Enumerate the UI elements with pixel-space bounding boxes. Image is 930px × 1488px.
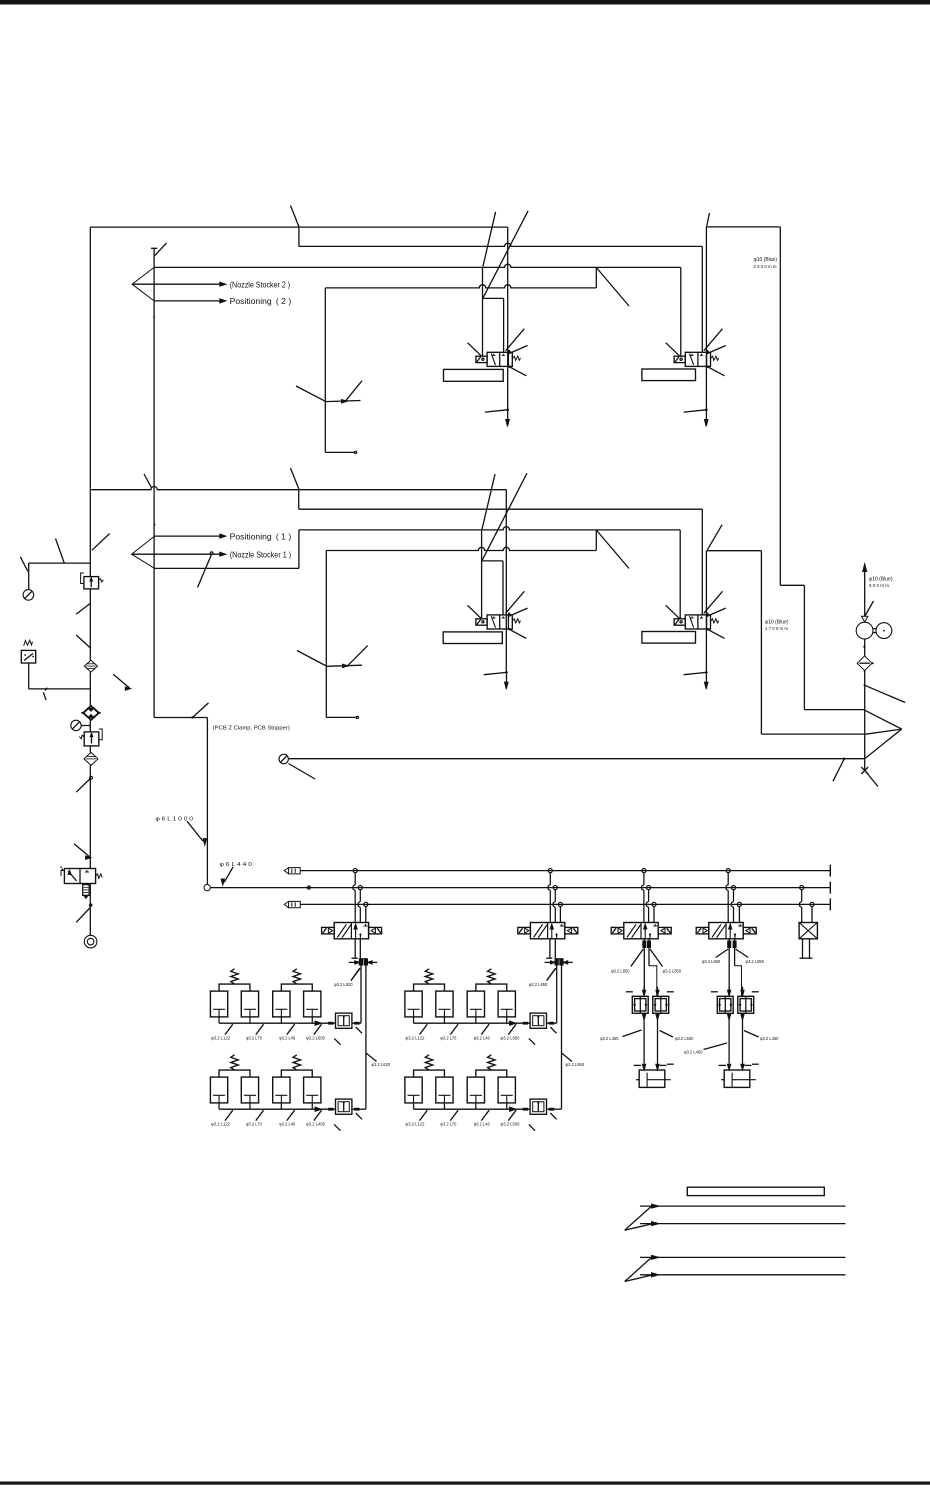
cylinder c2u-p2-1	[467, 991, 484, 1017]
corner circle at manifold	[204, 884, 210, 890]
stem c2u-p2-1	[475, 1017, 477, 1023]
legend chevron 1	[625, 1207, 651, 1231]
valve section1-B name plate	[642, 369, 696, 381]
label leader c1l-1	[225, 1110, 233, 1120]
valve flow path	[491, 616, 495, 628]
st4 side ticks	[711, 991, 718, 993]
stem c1u-p2-2	[311, 1017, 313, 1023]
svg-text:φ3.2 L460: φ3.2 L460	[600, 1036, 619, 1041]
bracket c2u-p1	[414, 984, 445, 991]
intake triangle	[862, 616, 868, 622]
actuator down arrow s2 valve2	[705, 672, 707, 681]
svg-text:φ3.2 L950: φ3.2 L950	[529, 982, 548, 987]
label leader c1l-3	[287, 1110, 295, 1120]
flow arrow c1l	[315, 1107, 321, 1111]
flow control st4-B	[738, 996, 754, 1013]
leader from node	[833, 759, 844, 782]
stem c1l-p1-1	[218, 1103, 220, 1109]
bracket c2l-p2	[476, 1070, 507, 1077]
leader to (482,298)	[483, 211, 528, 298]
wire: riser x=596.3	[595, 267, 597, 288]
svg-text:φ3.2 L70: φ3.2 L70	[246, 1122, 262, 1127]
wire: pilot jog corner to x=503.6	[483, 297, 504, 299]
leader lines at valve section2-B	[666, 605, 680, 619]
leader lines at valve section2-A	[468, 605, 482, 619]
rail 1 end bar	[829, 865, 831, 877]
leader from corner 596 (s2)	[596, 530, 629, 569]
st4 arrows out of controls	[728, 1014, 731, 1020]
leader to (481,530)	[482, 474, 495, 529]
collector line c1l	[219, 1108, 335, 1110]
wire: valve2 pilot drop x=680.2	[679, 530, 681, 619]
label arrow Positioning (2)	[154, 300, 221, 302]
flow arrow c1u	[315, 1021, 321, 1025]
stem c2l-p2-2	[506, 1103, 508, 1109]
st1 drop line to lower cluster	[365, 965, 367, 1109]
st2 feed from rail3	[559, 907, 561, 923]
spring return c2u-p1	[425, 969, 433, 984]
wire: main right riser	[864, 671, 866, 771]
svg-text:Positioning ( 2 ): Positioning ( 2 )	[230, 297, 292, 306]
legend line pair 1	[640, 1205, 846, 1207]
label arrow Positioning (1)	[155, 535, 221, 537]
st1 feed from rail3	[365, 907, 367, 923]
st2 drop line to lower cluster	[561, 965, 563, 1109]
drain circle w/ slash	[279, 754, 288, 763]
wire: section2 valve2 supply y=509.2	[299, 508, 703, 510]
blanking plate with X	[799, 923, 817, 939]
st3 cylinder	[639, 1070, 665, 1087]
chevron branch marker section2	[132, 536, 155, 568]
leader to left riser	[92, 534, 110, 551]
st1 junction label leader	[351, 968, 360, 981]
st5 plugged outlets	[802, 939, 804, 958]
st3 feed from rail2	[646, 890, 648, 923]
closed end X	[861, 767, 868, 774]
leader at tube corner	[707, 213, 710, 227]
wire: left leg x=326.3 down	[325, 551, 327, 718]
cylinder c2l-p1-2	[436, 1077, 453, 1103]
wire: lower link y=568.4	[155, 567, 299, 569]
label leader c2u-3	[481, 1024, 489, 1034]
straight flow paths	[644, 925, 646, 939]
wire: valve to muffler	[89, 884, 91, 936]
stem c1u-p1-2	[249, 1017, 251, 1023]
cylinder c1u-p1-2	[241, 991, 258, 1017]
st1 junction side ticks	[349, 961, 360, 963]
leader to junction (299,227)	[291, 206, 299, 227]
pressure gauge 1	[23, 590, 34, 601]
bracket c2l-p1	[414, 1070, 445, 1077]
wire: gauge branch y=563.1	[29, 562, 91, 564]
svg-text:φ3.2 L850: φ3.2 L850	[611, 969, 630, 974]
straight flow paths	[729, 925, 731, 939]
st1 feed from rail2	[358, 890, 360, 923]
svg-text:φ10 (Blue): φ10 (Blue)	[754, 257, 778, 263]
silencer (double circle)	[84, 935, 97, 948]
wire: left riser continues x=90	[89, 489, 91, 563]
svg-text:φ3.2 L460: φ3.2 L460	[760, 1036, 779, 1041]
st3 side ticks	[626, 991, 633, 993]
st4 lines through controls	[728, 987, 730, 997]
collector chevron right	[865, 710, 902, 729]
svg-text:1 7 0 0 m m: 1 7 0 0 m m	[765, 626, 788, 631]
leader from corner 596	[596, 268, 629, 307]
left pilot st2	[518, 927, 531, 934]
4/2 manifold valve st2 body	[530, 923, 564, 939]
right pilot st4	[743, 927, 756, 934]
leader at leg y=666	[347, 646, 368, 667]
svg-text:(Nozzle Stocker 1 ): (Nozzle Stocker 1 )	[230, 550, 292, 559]
st3 tap circles	[642, 869, 646, 873]
label leader c2u-1	[420, 1024, 428, 1034]
wire: section2 main supply line y=489.6	[90, 487, 506, 490]
rail plug 3	[284, 901, 300, 907]
label arrow (Nozzle Stocker 2)	[132, 283, 221, 285]
leader lines at valve section1-B	[666, 343, 680, 357]
link to main c2u	[547, 1022, 557, 1024]
svg-text:φ3.2 L70: φ3.2 L70	[246, 1036, 262, 1041]
svg-text:φ3.2 L400: φ3.2 L400	[684, 1049, 703, 1054]
svg-text:φ3.2 L620: φ3.2 L620	[372, 1062, 391, 1067]
wire: tube route y=226.9 top	[706, 226, 780, 228]
label leader c2l-4	[508, 1110, 516, 1120]
svg-text:φ3.2 L950: φ3.2 L950	[745, 959, 764, 964]
cylinder c2u-p2-2	[498, 991, 515, 1017]
st4 feed from rail1	[726, 873, 728, 923]
spring return c1l-p2	[293, 1055, 301, 1070]
st1 outlet A with end plug	[354, 939, 356, 958]
svg-text:φ3.2 L850: φ3.2 L850	[663, 969, 682, 974]
st1 drop line to upper cluster	[360, 965, 362, 1023]
svg-text:φ3.2 L122: φ3.2 L122	[406, 1122, 425, 1127]
svg-text:φ10 (Blue): φ10 (Blue)	[869, 576, 893, 582]
return spring section1-A	[512, 356, 520, 360]
flow arrow c2u	[510, 1021, 516, 1025]
link marks	[873, 628, 876, 630]
svg-text:(PCB Z Clamp, PCB Stopper): (PCB Z Clamp, PCB Stopper)	[213, 726, 290, 732]
actuator down arrow valve1	[507, 410, 509, 419]
cylinder c2u-p1-2	[436, 991, 453, 1017]
st4 leader diagonals	[716, 949, 729, 958]
wire: valve2 through line x=706.4	[705, 227, 707, 410]
solenoid pilot section1-B	[674, 356, 685, 362]
wire: tube jog y=585.3	[780, 584, 804, 586]
leaders below fb c2u	[529, 1038, 535, 1044]
right pilot st2	[565, 927, 578, 934]
wire: left leg x=325.3 down	[324, 288, 326, 453]
stem c2l-p1-2	[443, 1103, 445, 1109]
st4 cylinder	[724, 1070, 750, 1087]
cylinder c1l-p1-2	[241, 1077, 258, 1103]
label leader c1u-2	[256, 1024, 264, 1034]
manifold rail 2 (supply)	[210, 887, 830, 889]
spring return c2u-p2	[488, 969, 496, 984]
label leader c1l-2	[256, 1110, 264, 1120]
left pilot st1	[322, 927, 335, 934]
chevron branch marker section1	[132, 267, 154, 301]
cylinder c2l-p1-1	[405, 1077, 422, 1103]
crossed flow paths	[337, 924, 346, 937]
svg-text:φ3.2 L500: φ3.2 L500	[675, 1036, 694, 1041]
collector line c2u	[414, 1022, 531, 1024]
wire: switch to junction	[28, 663, 30, 689]
leader to tick	[76, 779, 90, 793]
svg-text:Positioning ( 1 ): Positioning ( 1 )	[230, 532, 292, 541]
filter 3	[89, 746, 91, 753]
svg-text:φ3.2 L70: φ3.2 L70	[440, 1122, 456, 1127]
spring return c1u-p1	[231, 969, 239, 984]
wire: valve1 pilot T drop x=482.5	[482, 267, 484, 356]
crossed flow paths	[534, 924, 543, 937]
st1 junction blocks	[359, 959, 362, 965]
leaders below fb c2l	[529, 1124, 535, 1130]
pressure switch	[24, 640, 33, 646]
speed controller c1u	[336, 1013, 352, 1028]
top title bar	[0, 0, 930, 5]
flow arrow c2l	[510, 1107, 516, 1111]
4/2 manifold valve st3 body	[624, 923, 658, 939]
label leader c1u-3	[287, 1024, 295, 1034]
manual 3/2 valve body	[64, 869, 95, 884]
wire: riser x=596.3 (s2)	[595, 530, 597, 551]
leader at drain circle	[289, 764, 316, 780]
svg-text:2 5 0 0 m m: 2 5 0 0 m m	[754, 264, 777, 269]
leader to (481,561)	[482, 473, 527, 560]
spring return c1u-p2	[293, 969, 301, 984]
wire: s2 tube drop x=761.4	[760, 551, 762, 734]
st3 outlet lines with flow arrows	[643, 939, 645, 997]
label arrow (Nozzle Stocker 1)	[132, 553, 221, 555]
wire: section1 main supply line y=227	[90, 226, 507, 228]
svg-text:(Nozzle Stocker 2 ): (Nozzle Stocker 2 )	[230, 280, 291, 289]
leaders below fb c1l	[334, 1124, 340, 1130]
legend chevron 2	[625, 1258, 651, 1282]
wire: pilot distribution line y=529.9	[299, 527, 680, 530]
valve section2-B name plate	[642, 632, 696, 644]
left pilot st4	[696, 927, 709, 934]
label leader c2l-2	[450, 1110, 458, 1120]
wire: section1 valve2 supply line y=246	[299, 243, 702, 246]
compressor circle	[856, 622, 873, 639]
wire: return line y=758.7	[288, 758, 864, 760]
link to main c2l	[547, 1108, 562, 1110]
svg-text:φ10 (Blue): φ10 (Blue)	[765, 619, 789, 625]
svg-text:φ3.2 L650: φ3.2 L650	[306, 1036, 325, 1041]
bracket c2u-p2	[476, 984, 507, 991]
rail 2 end bar	[829, 882, 831, 894]
stem c2u-p1-1	[413, 1017, 415, 1023]
gauge circle right	[876, 623, 892, 639]
svg-text:φ3.2 L122: φ3.2 L122	[211, 1122, 230, 1127]
wire: cross line y=550.5	[326, 547, 596, 550]
cylinder c2u-p1-1	[405, 991, 422, 1017]
leader	[351, 969, 360, 981]
st2 outlet B	[554, 939, 556, 959]
leader to intake	[865, 601, 874, 616]
manifold rail 3	[300, 903, 830, 905]
st2 feed from rail1	[548, 873, 550, 923]
solenoid valve section1-A body	[487, 352, 512, 366]
leaders below fb c1u	[334, 1038, 340, 1044]
leader lines at valve section1-A	[468, 343, 482, 357]
long leader to leg (s2)	[297, 651, 326, 667]
spring return c2l-p2	[488, 1055, 496, 1070]
return spring section1-B	[711, 356, 719, 360]
solenoid pilot section2-B	[674, 619, 685, 625]
flow marks	[68, 871, 77, 881]
svg-text:φ 6 L 1 0 0 0: φ 6 L 1 0 0 0	[156, 816, 194, 822]
stem c1l-p2-1	[280, 1103, 282, 1109]
svg-text:φ3.2 L950: φ3.2 L950	[566, 1062, 585, 1067]
cylinder c2l-p2-2	[498, 1077, 515, 1103]
straight flow paths	[355, 925, 357, 939]
stub with dot at y=452	[325, 451, 354, 453]
cylinder c1u-p2-1	[273, 991, 290, 1017]
leader from X	[866, 772, 878, 787]
wire: valve2 pilot drop x=680.8	[680, 267, 682, 356]
actuator stub left	[61, 866, 64, 876]
actuator down arrow s2 valve1	[506, 672, 508, 681]
solenoid valve section2-A body	[487, 615, 512, 629]
stem c1u-p1-1	[218, 1017, 220, 1023]
wire: valve1 pilot T drop x=481.6	[481, 530, 483, 619]
st2 feed from rail2	[553, 890, 555, 923]
st3 feed from rail3	[653, 907, 655, 923]
flow control st3-A	[632, 996, 648, 1013]
rail 3 end bar	[829, 898, 831, 910]
collector line c2l	[414, 1108, 531, 1110]
leader from junction	[865, 685, 906, 702]
wire: down to valve	[89, 765, 91, 868]
valve section1-A name plate	[444, 369, 504, 381]
cylinder c1l-p2-2	[304, 1077, 321, 1103]
svg-text:φ 6 L 4 4 0: φ 6 L 4 4 0	[220, 862, 253, 868]
st3 jog right	[649, 966, 657, 997]
stub with dot y=717	[326, 716, 356, 718]
return spring section2-B	[711, 619, 719, 623]
wire: source drop	[864, 639, 866, 656]
valve flow path	[690, 354, 694, 366]
st4 tap circles	[726, 869, 730, 873]
leader phi6L1000	[187, 821, 203, 841]
air source up arrow	[864, 568, 866, 617]
label leader c1u-1	[225, 1024, 233, 1034]
wire: branch drop x=298.7	[298, 490, 300, 510]
leader at gauge stem	[20, 557, 28, 572]
speed controller c2u	[530, 1013, 546, 1028]
st1 tap circles	[353, 869, 357, 873]
leader pair mid chain	[76, 603, 91, 614]
label leader c1l-4	[314, 1110, 322, 1120]
st5 feeds	[800, 890, 802, 923]
svg-text:φ3.2 L46: φ3.2 L46	[474, 1036, 490, 1041]
svg-text:φ3.2 L70: φ3.2 L70	[440, 1036, 456, 1041]
st3 leader diagonals	[631, 949, 644, 967]
wire: s2 valve2 through line x=706.4	[705, 551, 707, 673]
st2 drop line to upper cluster	[556, 965, 558, 1023]
st2 junction side ticks	[545, 961, 556, 963]
filter 1	[84, 660, 97, 672]
stem c2l-p2-1	[475, 1103, 477, 1109]
leader to hop at x=154	[144, 474, 152, 488]
4/2 manifold valve st1 body	[334, 923, 368, 939]
actuator junction tick s2 valve1	[505, 671, 508, 674]
wire: manifold feed drop x=207.4	[206, 718, 208, 885]
return spring section2-A	[512, 619, 520, 623]
actuator junction tick s2 valve2	[705, 671, 708, 674]
small circle tick y=777	[90, 776, 93, 779]
4/2 manifold valve st4 body	[709, 923, 743, 939]
svg-text:φ3.2 L46: φ3.2 L46	[474, 1122, 490, 1127]
leader at s2 tube start	[707, 525, 722, 550]
leader at branch	[56, 539, 65, 564]
regulator 1	[89, 563, 91, 577]
legend box	[687, 1187, 824, 1195]
link to main c1u	[352, 1022, 361, 1024]
svg-text:φ3.2 L950: φ3.2 L950	[702, 959, 721, 964]
tick on riser y=524	[154, 524, 156, 526]
svg-text:φ3.2 L450: φ3.2 L450	[306, 1122, 325, 1127]
crossed flow paths	[712, 924, 721, 937]
cylinder c1u-p2-2	[304, 991, 321, 1017]
junction dot y=685	[864, 684, 866, 686]
cylinder c1l-p1-1	[210, 1077, 227, 1103]
wire: valve2 supply drop x=702	[701, 246, 703, 352]
node dot below compressor	[863, 646, 865, 648]
manifold rail 1	[300, 870, 830, 872]
leader to (482,267)	[483, 212, 496, 267]
wire: left supply riser x=90	[89, 227, 91, 489]
flow control st4-A	[717, 996, 733, 1013]
speed controller c1l	[336, 1099, 352, 1114]
bracket c1l-p2	[281, 1070, 312, 1077]
spring return c2l-p1	[425, 1055, 433, 1070]
svg-text:φ3.2 L122: φ3.2 L122	[211, 1036, 230, 1041]
plug T symbol on supply riser x=154	[151, 247, 157, 249]
st1 feed from rail1	[353, 873, 355, 923]
regulator 2	[89, 720, 91, 732]
cylinder c1l-p2-1	[273, 1077, 290, 1103]
svg-text:φ3.2 L820: φ3.2 L820	[334, 982, 353, 987]
spring return c1l-p1	[231, 1055, 239, 1070]
cylinder c1u-p1-1	[210, 991, 227, 1017]
rail plug 1	[284, 868, 300, 874]
tick on line	[45, 688, 47, 691]
valve section2-A name plate	[443, 632, 502, 644]
bracket c1l-p1	[219, 1070, 250, 1077]
flow control st3-B	[653, 996, 669, 1013]
st4 feed from rail3	[738, 907, 740, 923]
st5 tap circles	[800, 886, 804, 890]
st4 feed from rail2	[731, 890, 733, 923]
stem c2l-p1-1	[413, 1103, 415, 1109]
stem c2u-p2-2	[506, 1017, 508, 1023]
st3 lines through controls	[643, 987, 645, 997]
bottom footer rule	[0, 1482, 930, 1485]
leader at leg y=401	[345, 381, 362, 402]
st1 outlet B	[359, 939, 361, 959]
wire: tube run y=709.6	[804, 709, 864, 711]
right pilot st3	[658, 927, 671, 934]
exhaust muffler box	[83, 885, 89, 896]
wire: riser x=298.9	[298, 530, 300, 569]
st4 outlet lines with flow arrows	[728, 939, 730, 997]
svg-text:φ3.2 L122: φ3.2 L122	[406, 1036, 425, 1041]
tick+arrow on leg y=666	[326, 665, 362, 666]
wire: riser turn y=717.5	[154, 717, 207, 719]
long leader to leg	[296, 386, 325, 401]
